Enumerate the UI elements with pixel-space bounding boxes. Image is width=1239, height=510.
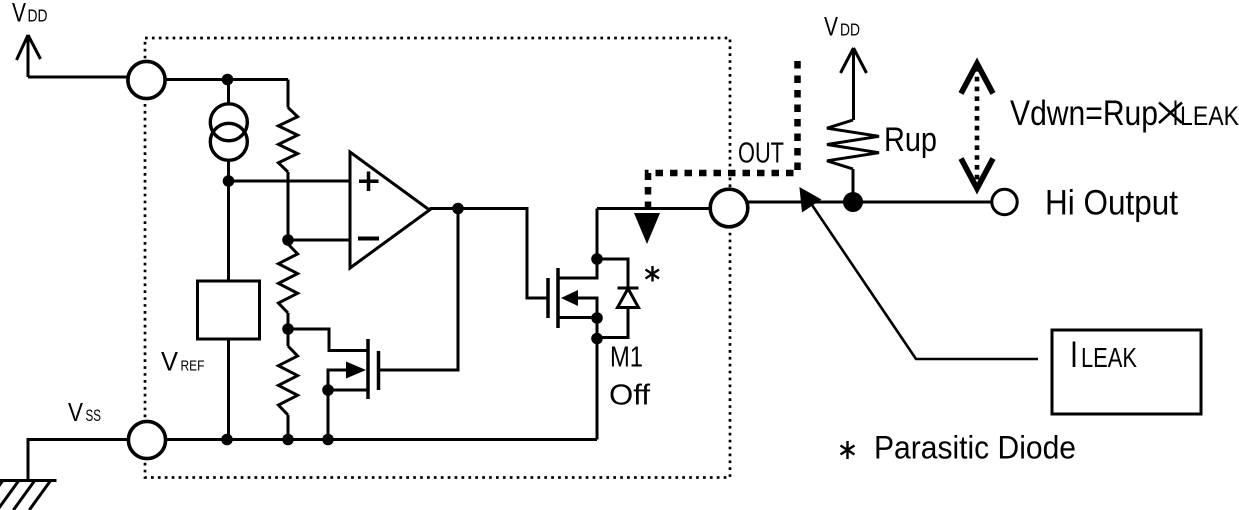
ground symbol xyxy=(0,481,57,510)
node E (op-amp output) xyxy=(452,203,464,215)
svg-text:Rup: Rup xyxy=(884,121,937,159)
resistor Rup xyxy=(827,120,879,169)
current source I1 (two overlapping circles) xyxy=(210,80,247,182)
leak current dashed path xyxy=(648,61,798,216)
VSS rail wire xyxy=(160,438,597,441)
svg-text:LEAK: LEAK xyxy=(1180,101,1239,131)
VSS pad (terminal circle) xyxy=(128,421,165,458)
node D (divider tap) xyxy=(282,323,294,335)
svg-text:V: V xyxy=(824,12,838,42)
VREF label xyxy=(161,347,205,377)
Hi Output terminal circle xyxy=(992,189,1017,214)
wire VDD arrow to VDD pad xyxy=(28,76,132,79)
rail node below VREF xyxy=(221,434,233,446)
M2 body lead with arrow xyxy=(328,370,346,390)
output wire OUT pad to Hi Output terminal xyxy=(742,201,991,204)
svg-text:DD: DD xyxy=(28,6,48,26)
node F (M1 drain / diode top) xyxy=(591,253,603,265)
svg-text:M1: M1 xyxy=(610,342,643,374)
VDD label (top left) xyxy=(12,0,48,28)
svg-text:I: I xyxy=(1070,334,1078,375)
rail node below R3 xyxy=(282,434,294,446)
rail node below M2 xyxy=(322,434,334,446)
Vdwn dotted measure line xyxy=(975,67,980,186)
ILEAK box label xyxy=(1070,334,1138,375)
M1 source lead xyxy=(558,316,597,319)
wire node C to op-amp - input xyxy=(288,239,350,242)
svg-text:Hi Output: Hi Output xyxy=(1045,184,1178,223)
asterisk marker at diode xyxy=(646,266,660,282)
M1 body lead with arrow xyxy=(577,298,597,318)
svg-text:Parasitic Diode: Parasitic Diode xyxy=(874,430,1076,466)
svg-text:V: V xyxy=(12,0,26,28)
resistor R3 xyxy=(287,329,290,346)
transistor M2 gate bar xyxy=(377,351,381,390)
svg-text:I: I xyxy=(1173,94,1179,133)
M1 drain lead xyxy=(558,209,597,279)
leak current arrowhead xyxy=(634,213,660,244)
parasitic diode note asterisk xyxy=(841,441,855,459)
wire M1 drain to OUT pad xyxy=(597,207,715,210)
pointer line from ILEAK box to output node xyxy=(810,202,1038,359)
VSS label xyxy=(68,397,101,427)
parasitic diode D1 symbol xyxy=(618,287,639,290)
pointer arrowhead xyxy=(799,187,821,213)
svg-text:REF: REF xyxy=(181,358,205,375)
transistor M2 channel bar xyxy=(366,339,370,399)
Vdwn equation label xyxy=(1010,94,1239,133)
ILEAK box xyxy=(1052,330,1201,414)
wire VSS pad to ground xyxy=(28,440,134,482)
Vdwn top chevron xyxy=(961,64,993,94)
svg-text:V: V xyxy=(161,347,178,377)
wire op-amp output to M1 gate xyxy=(430,209,549,299)
svg-text:LEAK: LEAK xyxy=(1081,342,1138,373)
IC boundary dotted box xyxy=(145,38,730,478)
node J (output node) xyxy=(843,192,863,212)
VDD arrow (top left) xyxy=(17,35,41,77)
svg-text:Off: Off xyxy=(609,380,651,412)
node A xyxy=(222,74,234,86)
op-amp U1 xyxy=(350,152,430,268)
svg-text:SS: SS xyxy=(86,406,102,425)
VDD label (right) xyxy=(824,12,860,42)
Vdwn bottom chevron xyxy=(961,159,993,189)
svg-text:DD: DD xyxy=(840,20,860,40)
resistor R2 xyxy=(278,244,297,313)
resistor R1 xyxy=(287,80,290,108)
wire VDD pad to node A and to R1 top xyxy=(158,78,288,81)
M2 source lead xyxy=(328,389,368,392)
wire M2 source to VSS rail xyxy=(327,390,330,440)
node G (M1 source junction) xyxy=(591,312,603,324)
OUT pad (terminal circle) xyxy=(710,189,748,227)
wire M1 source to VSS rail xyxy=(596,318,599,440)
M2 drain lead to node D xyxy=(288,329,368,351)
VDD arrow (right) xyxy=(841,48,867,120)
node C (inverting input tap) xyxy=(282,234,294,246)
node H (diode bottom junction) xyxy=(591,333,603,345)
svg-text:Vdwn=Rup: Vdwn=Rup xyxy=(1010,94,1158,133)
op-amp + symbol xyxy=(359,172,379,192)
parasitic diode D1 wiring xyxy=(597,259,628,338)
wire node E down to M2 gate xyxy=(379,209,458,371)
wire node B to op-amp + input xyxy=(229,180,351,183)
node B (below current source) xyxy=(223,175,235,187)
svg-text:V: V xyxy=(68,397,84,427)
M2 source node dot xyxy=(322,384,334,396)
wire VREF block to VSS rail xyxy=(227,339,230,440)
svg-text:OUT: OUT xyxy=(738,138,784,170)
wire node B down to VREF block xyxy=(227,181,230,281)
transistor M1 channel bar xyxy=(556,268,560,328)
op-amp - symbol xyxy=(358,237,379,241)
transistor M1 gate bar xyxy=(546,278,550,318)
VDD pad (terminal circle) xyxy=(128,61,165,98)
VREF block xyxy=(198,281,260,339)
